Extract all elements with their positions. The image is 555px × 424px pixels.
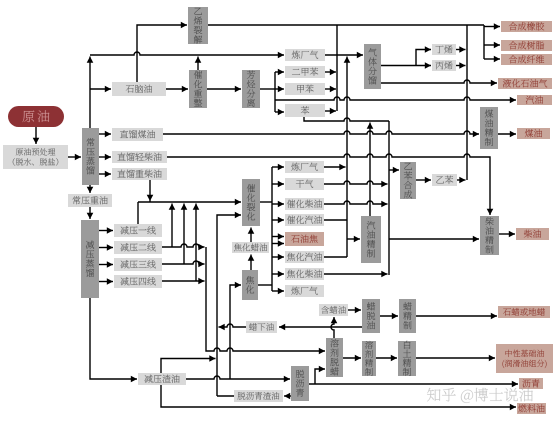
wire coker waxoil to FCC bbox=[248, 228, 255, 243]
box 常压蒸馏 bbox=[82, 128, 99, 185]
wire to coker gasoline box bbox=[272, 254, 284, 261]
wire residue to deasphalting bbox=[186, 376, 290, 383]
wire to EB synthesis bbox=[389, 167, 399, 174]
wire atm bottom to heavy oil bbox=[87, 185, 94, 193]
box 含蜡油 bbox=[319, 304, 348, 316]
wire vac to line2 bbox=[99, 244, 113, 251]
wire fuel oil line bbox=[161, 385, 516, 410]
box 减压四线 bbox=[114, 275, 162, 288]
wire lube collector 206 bbox=[206, 247, 325, 354]
output 煤油 bbox=[517, 128, 550, 139]
wire vac line2 line bbox=[162, 244, 205, 251]
wire riser 196 bbox=[193, 204, 200, 282]
box 焦化汽油 bbox=[285, 251, 324, 263]
wire ethylbenzene riser bbox=[466, 25, 468, 180]
box 气体分馏 bbox=[364, 44, 381, 89]
wire to gasoline refining bbox=[347, 236, 360, 243]
wire FCC feed bus bbox=[138, 199, 241, 206]
wire atm top riser gas bbox=[87, 57, 94, 129]
wire vac line1 riser bbox=[137, 202, 139, 224]
wire solvent refining to clay bbox=[376, 355, 397, 362]
box 甲苯 bbox=[285, 83, 325, 95]
wire coker diesel line bbox=[324, 271, 388, 278]
wire to pet coke b box bbox=[272, 240, 284, 247]
wire diesel refining to diesel bbox=[499, 231, 515, 238]
wire heavy oil to vacuum bbox=[87, 207, 94, 219]
wire gasfrac to LPG bbox=[381, 80, 497, 87]
wire residue riser to bus bbox=[161, 355, 216, 373]
wire reformer riser to gas bus bbox=[195, 57, 202, 71]
box 减压三线 bbox=[114, 258, 162, 271]
box 丁烯 bbox=[432, 44, 456, 55]
wire vac to line3 bbox=[99, 261, 113, 268]
box 催化裂化 bbox=[242, 179, 260, 226]
box 乙苯 bbox=[432, 174, 457, 186]
wire to refinery gas bottom box bbox=[272, 288, 284, 295]
wire gasfrac to propylene bbox=[381, 62, 431, 69]
wire diesel feed line bbox=[389, 236, 479, 243]
wire kerosene line bbox=[163, 131, 479, 138]
wire gasoline refining riser bbox=[367, 123, 374, 217]
wire pretreatment to atm distillation bbox=[68, 154, 81, 161]
wire coker out bbox=[258, 284, 272, 286]
wire aromatics bracket bbox=[260, 88, 275, 90]
box 脱沥青 bbox=[291, 366, 309, 401]
output 汽油 bbox=[517, 95, 552, 105]
output 合成纤维 bbox=[501, 54, 552, 65]
wire atm to heavy diesel cut bbox=[99, 171, 111, 178]
box 石油焦 bbox=[285, 232, 324, 246]
wire benzene drop bbox=[304, 117, 389, 121]
output 燃料油 bbox=[517, 403, 546, 414]
box 溶剂脱蜡 bbox=[326, 338, 343, 377]
wire to synthetic rubber bbox=[484, 23, 500, 30]
wire products bracket 272 bbox=[271, 167, 273, 291]
wire EB synthesis to EB bbox=[416, 177, 431, 184]
wire vertical 389 bbox=[388, 121, 390, 275]
output 柴油 bbox=[516, 228, 549, 240]
wire synthesis bracket bbox=[483, 25, 485, 59]
box 乙烯裂解 bbox=[188, 7, 208, 44]
output 合成树脂 bbox=[501, 40, 552, 51]
box 芳烃分离 bbox=[242, 70, 260, 108]
box 原油预处理 bbox=[3, 145, 68, 169]
wire to benzene box bbox=[275, 109, 284, 116]
wire kerosene refining to kerosene bbox=[498, 131, 516, 138]
box 炼厂气 top bbox=[285, 49, 325, 61]
wire clay to base oil bbox=[416, 355, 495, 362]
wire benzene out bbox=[325, 108, 336, 115]
box 焦化柴油 bbox=[285, 268, 324, 280]
wire EB to riser bbox=[457, 177, 466, 184]
box 二甲苯 bbox=[285, 66, 325, 78]
wire naphtha riser to steam cracker bbox=[137, 22, 187, 82]
box 直馏煤油 bbox=[112, 128, 163, 141]
wire ethylene line top bbox=[208, 24, 484, 26]
box 直馏重柴油 bbox=[112, 168, 167, 180]
wire BTX riser bbox=[336, 25, 338, 111]
wire riser 184 bbox=[181, 204, 188, 265]
wire to cat diesel box bbox=[272, 201, 284, 208]
wire gas bus to refinery gas top bbox=[90, 52, 284, 59]
wire coker gasoline join bbox=[324, 256, 347, 258]
wire DAO residue join bbox=[217, 395, 234, 397]
box 汽油精制 bbox=[361, 216, 381, 263]
wire dewaxing to solvent refining bbox=[343, 355, 361, 362]
wire FCC out bbox=[260, 201, 272, 203]
box 焦化 bbox=[242, 270, 258, 300]
wire wax refining to paraffin bbox=[416, 313, 497, 320]
box 炼厂气 bottom bbox=[285, 285, 324, 297]
wire coker to coker waxoil bbox=[248, 255, 255, 271]
wire toluene out bbox=[325, 86, 336, 93]
wire to synthetic resin bbox=[484, 42, 500, 49]
wire waxy oil to wax deoiling bbox=[348, 307, 361, 314]
wire branch to naphtha bbox=[90, 86, 111, 93]
wire to cat gasoline box bbox=[272, 217, 284, 224]
wire DAO to solvent dewaxing bbox=[315, 366, 325, 384]
box 干气 bbox=[285, 178, 324, 190]
wire branch to butylene bbox=[416, 46, 431, 65]
box 催化重整 bbox=[189, 70, 207, 108]
wire gasoline bus bbox=[275, 97, 516, 104]
wire to xylene box bbox=[275, 69, 284, 76]
wire wax bottom oil line bbox=[279, 324, 362, 331]
wire vac line3 line bbox=[162, 261, 205, 268]
box 减压二线 bbox=[114, 241, 162, 254]
box 蜡下油 bbox=[246, 321, 277, 333]
wire vac bottom to residue bbox=[90, 298, 137, 382]
wire to dry gas box bbox=[272, 181, 284, 188]
wire refinery gas mid out bbox=[324, 164, 346, 171]
box 直馏轻柴油 bbox=[112, 151, 167, 163]
watermark 知乎 @博士说油 bbox=[427, 388, 533, 403]
wire to synthetic fiber bbox=[484, 56, 500, 63]
wire wax-oil return bbox=[219, 324, 247, 331]
box 催化柴油 bbox=[285, 198, 324, 210]
box 焦化蜡油 bbox=[232, 242, 269, 253]
wire vac to line4 bbox=[99, 278, 113, 285]
box 炼厂气 mid bbox=[285, 161, 324, 173]
wire atm to light diesel cut bbox=[99, 154, 111, 161]
box 减压蒸馏 bbox=[81, 220, 99, 298]
crude oil pill 原油 bbox=[8, 106, 64, 127]
output 沥青 bbox=[519, 378, 543, 389]
wire crude to pretreatment bbox=[33, 127, 40, 144]
wire deoiling to wax refining bbox=[380, 313, 398, 320]
box 柴油精制 bbox=[480, 216, 499, 255]
box 丙烯 bbox=[432, 60, 456, 71]
wire naphtha to reformer bbox=[166, 86, 188, 93]
box 减压一线 bbox=[114, 224, 162, 237]
arrowhead heavy diesel drop bbox=[147, 195, 154, 201]
wire riser 172 bbox=[169, 204, 176, 248]
box 石脑油 bbox=[112, 82, 166, 96]
box 减压渣油 bbox=[138, 373, 186, 385]
wire to toluene box bbox=[275, 86, 284, 93]
wire vac line4 line bbox=[162, 278, 205, 285]
box 煤油精制 bbox=[480, 107, 498, 149]
wire to refinery gas mid box bbox=[272, 164, 284, 171]
wire to pet coke a box bbox=[272, 233, 284, 240]
box 脱沥青渣油 bbox=[234, 390, 283, 402]
wire dry gas line bbox=[324, 181, 388, 188]
box 常压重油 bbox=[68, 194, 112, 207]
wire dewax to waxy oil bbox=[331, 317, 338, 338]
wire atm to kerosene cut bbox=[99, 131, 111, 138]
box 乙苯合成 bbox=[400, 162, 416, 199]
wire butylene out bbox=[456, 46, 466, 53]
output 液化石油气 bbox=[498, 78, 552, 89]
wire recycle bus 217 bbox=[217, 212, 241, 396]
box 苯 bbox=[285, 104, 325, 117]
output 中性基础油 bbox=[496, 344, 553, 373]
wire gas riser 347 bbox=[344, 57, 351, 258]
output 合成橡胶 bbox=[501, 21, 552, 32]
wire vac to line1 bbox=[99, 227, 113, 234]
wire refinery gas to gas fractionation bbox=[325, 52, 363, 59]
wire xylene out bbox=[325, 69, 336, 76]
wire reformer to aromatics separation bbox=[207, 86, 241, 93]
box 催化汽油 bbox=[285, 214, 324, 226]
box 蜡脱油 bbox=[362, 299, 380, 333]
wire deasphalting to DAO residue bbox=[284, 393, 291, 400]
wire cat diesel line bbox=[324, 201, 388, 208]
wire bracket vertical bbox=[274, 72, 276, 112]
box 蜡精制 bbox=[399, 299, 416, 333]
output 石蜡或地蜡 bbox=[498, 306, 550, 318]
wire heavy diesel drop bbox=[149, 180, 151, 202]
wire cat gasoline join bbox=[324, 219, 347, 221]
wire light diesel line bbox=[167, 154, 493, 215]
wire deasphalting to asphalt bbox=[309, 381, 518, 388]
box 白土精制 bbox=[398, 341, 416, 376]
wire to coker diesel box bbox=[272, 271, 284, 278]
wire propylene out bbox=[456, 62, 466, 69]
wire coker feed riser 230 bbox=[230, 282, 241, 379]
box 溶剂精制 bbox=[362, 341, 376, 376]
